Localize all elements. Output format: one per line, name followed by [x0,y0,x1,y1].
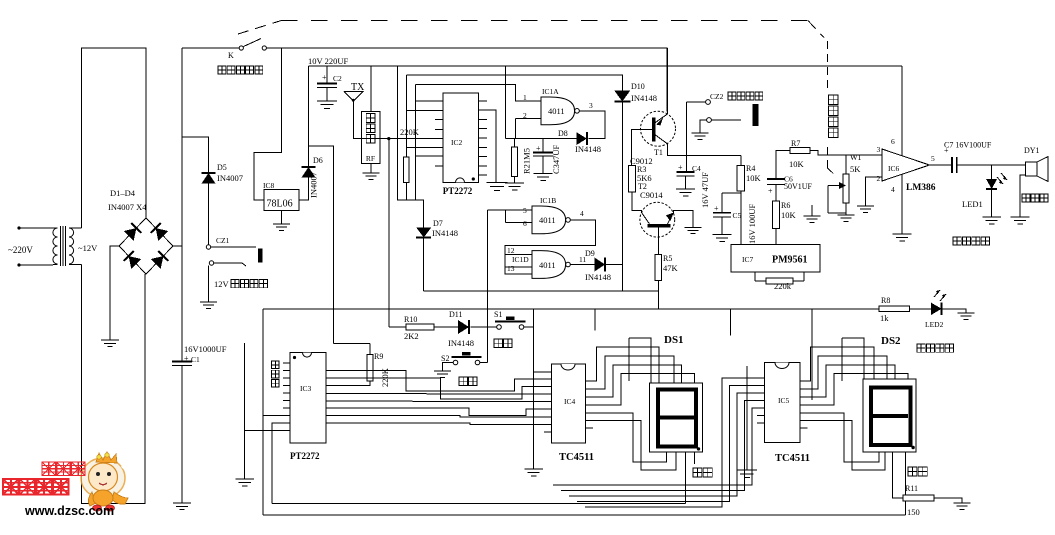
svg-text:~12V: ~12V [78,243,98,253]
resistor R2 1M5 [512,139,532,183]
wire IC1B pin5 from S2 line [488,209,533,211]
capacitor C7 16V100UF [944,141,992,174]
svg-text:D10: D10 [631,82,645,91]
ground (R11) [954,503,971,509]
svg-text:1k: 1k [880,313,889,323]
wire IC5 to DS2 segment lines (bottom) [808,413,886,470]
capacitor C4 16V47UF [677,163,711,208]
wire D6 cathode up to 6V rail [308,66,310,167]
wire IC5 power drop [729,309,731,336]
wire S2 left to ground [443,363,454,372]
resistor R9 220K [334,344,390,388]
diode D5 IN4007 [202,163,243,184]
wire S2 right to pin5 line [480,362,488,364]
label power indicator [917,344,953,352]
regulator IC8 78L06 [263,181,299,211]
svg-text:LED2: LED2 [925,320,944,329]
svg-text:C9014: C9014 [640,190,663,200]
switch K (bell switch) [182,39,266,61]
svg-text:IC1B: IC1B [540,196,556,205]
diode D8 IN4148 [558,129,601,154]
svg-text:5: 5 [931,154,935,163]
wire IC2 right pin to ground [478,110,496,182]
wire IC3 pin to bottom bus2 [272,423,283,504]
svg-text:D8: D8 [558,129,568,138]
label IC3 address pins (vertical) [272,361,280,387]
svg-text:CZ2: CZ2 [710,92,724,101]
svg-text:IC1D: IC1D [512,255,529,264]
wire receiver ground [370,164,372,173]
wire LM386 output [929,164,951,166]
wire bridge left vertex to ground [110,246,119,340]
connector CZ2 alarm output [687,92,763,133]
wire IC2 pin around top to IC1A pin1 (bus B) [415,85,541,201]
bridge rectifier D1-D4 IN4007 X4 [108,188,173,274]
svg-text:R10: R10 [404,315,417,324]
svg-text:4: 4 [580,209,584,218]
ground (W1) [838,215,855,221]
transistor T2 C9014 [638,182,675,237]
label 12V DC input [214,279,267,289]
capacitor C6 50V1UF [767,175,813,196]
resistor R3 5K6 [629,165,652,192]
wire 6V rail [309,65,902,67]
IC U3 PT2272 encoder (lower) [290,353,326,461]
wire DS2 cathode to R11 [893,452,904,498]
wire R6 bottom to PM9561 [775,229,777,245]
wire T1 emitter up to switched rail [666,48,668,114]
diode D10 IN4148 [614,82,657,103]
label alarm (S1) [494,339,512,347]
IC3 pin stubs [283,363,334,431]
svg-text:12V: 12V [214,279,230,289]
watermark find-chip text [42,462,85,476]
watermark brand text [3,479,69,495]
transistor T1 C9012 [630,111,676,166]
svg-text:C7 16V100UF: C7 16V100UF [944,141,992,150]
switch S1 (alarm button) [494,310,526,329]
diode D11 IN4148 [434,310,474,348]
ground (CZ1) [200,302,217,308]
wire R7 left to C6 [776,151,790,180]
wire S2 vertical [487,210,489,363]
svg-text:+: + [184,354,189,363]
gate IC1B 4011 [523,196,584,234]
ground (IC3 left) [235,479,254,486]
svg-text:S1: S1 [494,310,502,319]
svg-text:IN4148: IN4148 [575,144,601,154]
wire IC1A pin2 to gate node [515,119,517,139]
wire bottom bus1 [263,514,906,516]
wire bus to IC5 data lines [553,378,757,507]
wire 6V rail drop to gate input node [504,66,506,139]
wire IC1D input stubs [505,255,532,268]
svg-text:2: 2 [877,174,881,183]
svg-text:C347UF: C347UF [551,144,561,174]
svg-text:IN4007: IN4007 [309,172,319,198]
wire IC1A output pin3 [579,111,605,139]
wire secondary-bottom to bridge bottom via bottom loop [82,265,146,504]
wire secondary-top to bridge top via top-left loop [82,48,147,228]
wire DC+ vertical rail (bridge output up to switch rail and down to C1) [181,48,183,503]
wire T2 base down to R5 [657,227,659,254]
svg-text:D9: D9 [585,249,595,258]
wire bottom bus2 [272,503,685,505]
svg-text:10V 220UF: 10V 220UF [308,56,348,66]
svg-text:47K: 47K [663,263,679,273]
svg-text:6: 6 [891,137,895,146]
label units digit [693,468,712,477]
wire 78L06 output to D6 [299,178,309,201]
svg-text:IC7: IC7 [742,255,754,264]
antenna TX [344,82,365,139]
svg-text:16V1000UF: 16V1000UF [184,344,227,354]
svg-text:16V 100UF: 16V 100UF [747,204,757,244]
wire gate input node [505,138,576,140]
diode D6 IN4007 [302,156,323,198]
ground (display section) [737,366,757,478]
LED LED2 (power indicator) [910,290,946,329]
svg-text:R8: R8 [881,296,890,305]
ground (CZ2) [692,133,709,139]
gate IC1D 4011 [507,246,586,278]
svg-text:13: 13 [507,264,515,273]
svg-text:D6: D6 [313,156,323,165]
wire rail drop at x397 to D7 [398,66,424,228]
wire IC3 pin to left ground [245,343,283,479]
svg-text:10K: 10K [789,159,805,169]
resistor R6 10K [773,185,797,229]
svg-text:PT2272: PT2272 [443,186,473,196]
wire IC2 lower-left pin to bus B vertical [415,155,443,157]
wire T2 collector to R3 bottom [632,192,642,213]
ground (S2) [434,371,451,377]
ground (IC2) [486,182,507,190]
svg-text:R6: R6 [781,201,790,210]
wire C7 to speaker [957,164,1026,166]
svg-text:10K: 10K [746,173,762,183]
gate IC1A 4011 [516,87,594,125]
svg-text:D11: D11 [449,310,462,319]
ground (C5) [713,235,732,242]
svg-text:4011: 4011 [548,106,565,116]
ground (LM386 pin2) [857,206,874,212]
wire IC1B output pin4 to IC1D inputs [505,220,595,274]
svg-text:IN4007 X4: IN4007 X4 [108,202,147,212]
svg-text:16V 47UF: 16V 47UF [700,172,710,208]
wire receiver data output to IC2 [380,138,443,140]
ground (C2) [317,101,337,108]
label alarm indicator [953,237,989,245]
svg-text:220K: 220K [400,127,420,137]
svg-text:220k: 220k [774,281,792,291]
svg-text:1: 1 [523,93,527,102]
wire DC+ branch to D5 [182,137,209,173]
svg-text:IC6: IC6 [888,164,900,173]
svg-text:+: + [322,73,327,82]
wire latch vertical x533 [534,309,552,469]
svg-text:IC4: IC4 [564,397,576,406]
svg-text:D5: D5 [217,163,227,172]
label volume adjust (vertical) [829,95,838,137]
ground (C3) [534,174,553,181]
dashed boundary (volume adjust shaft link) [238,21,837,177]
wire LED2 to ground [942,309,967,313]
IC4 right pin stubs [585,381,593,428]
wire reset bus [424,291,659,309]
svg-text:DS2: DS2 [881,335,901,347]
IC4 leftover pin stub [544,431,552,433]
svg-text:R4: R4 [746,164,755,173]
svg-text:+: + [768,187,773,196]
IC U2 PT2272 decoder [443,93,479,196]
capacitor C1 16V1000UF [172,344,227,366]
svg-text:PT2272: PT2272 [290,451,320,461]
svg-text:3: 3 [877,145,881,154]
wire trigger bus drop [594,309,596,331]
diode D7 IN4148 [416,219,458,238]
label reset (S2) [459,377,477,385]
wire 6V branch down to lower section [309,146,334,344]
svg-text:IC2: IC2 [451,138,463,147]
svg-text:78L06: 78L06 [267,199,293,210]
svg-text:150: 150 [907,507,920,517]
wire R7 right to LM386 pin3 [810,151,875,156]
svg-text:12: 12 [507,246,515,255]
svg-text:C1: C1 [191,355,200,364]
svg-text:T1: T1 [654,148,663,157]
svg-text:W1: W1 [850,153,862,162]
diode D9 IN4148 [570,249,611,282]
svg-text:LM386: LM386 [906,183,936,193]
ground (LM386 pin4) [893,234,912,241]
wire IC5 to DS2 segment lines (top) [808,338,909,405]
ground (LED1) [982,217,1001,224]
LED LED1 (alarm indicator) [962,165,1007,217]
resistor R5 47K [655,254,678,280]
ground (aux near PM9561) [804,205,821,222]
wire IC1B pin6 [505,210,532,223]
resistor R7 10K [789,139,810,169]
node AC mains ~220V input terminals [8,226,49,266]
svg-text:3: 3 [589,101,593,110]
wire IC3 pin to rail drop vertical [263,415,283,417]
svg-text:IN4007: IN4007 [217,173,243,183]
op-amp IC6 LM386 [875,66,936,234]
svg-text:IN4148: IN4148 [432,228,458,238]
svg-text:4011: 4011 [539,215,556,225]
switch S2 (reset button) [441,352,482,365]
wire 220K top to IC2 pin [406,147,443,149]
resistor 220K (IC2 oscillator) [404,148,410,201]
svg-text:R21M5: R21M5 [522,148,532,174]
wire D8 cathode to IC1A pin3 [588,112,605,139]
resistor R11 150 [903,484,934,517]
svg-text:DS1: DS1 [664,334,684,346]
IC U5 TC4511 (tens driver) [765,363,810,465]
svg-text:+: + [678,163,683,172]
svg-text:R9: R9 [374,352,383,361]
svg-text:2: 2 [523,111,527,120]
wire D10 cathode down (alarm trigger line) [621,102,623,265]
wire D7 cathode to reset bus [423,238,425,291]
wire big left vertical [262,309,264,515]
svg-text:C4: C4 [692,164,701,173]
svg-text:IN4148: IN4148 [585,272,611,282]
wire D11 to S1 [471,326,497,328]
label 220K [400,127,420,137]
svg-text:TC4511: TC4511 [775,453,810,464]
svg-text:RF: RF [366,154,375,163]
ground (R2) [505,183,524,190]
svg-text:C2: C2 [333,74,342,83]
potentiometer W1 5K (volume) [828,153,862,215]
svg-text:PM9561: PM9561 [772,255,808,266]
wire IC4 to DS1 segment lines (top) [593,338,695,405]
svg-text:~220V: ~220V [8,245,33,255]
watermark url [24,504,114,518]
RF receiver module (RF receive head) [362,112,380,164]
svg-text:6: 6 [523,219,527,228]
IC5 pin stubs [757,378,808,428]
svg-text:K: K [228,51,234,60]
svg-text:D7: D7 [433,219,443,228]
svg-text:+: + [714,204,719,213]
svg-text:4: 4 [891,185,895,194]
wire bus IC3 to IC4 data lines [334,371,551,425]
svg-text:+: + [536,144,541,153]
ground (LED2) [958,313,975,319]
wire switched DC+ rail to T1 emitter [267,48,668,112]
svg-text:IC1A: IC1A [542,87,559,96]
resistor R4 10K [737,156,761,191]
svg-text:50V1UF: 50V1UF [784,182,813,191]
svg-text:C5: C5 [733,211,742,220]
svg-text:2K2: 2K2 [404,331,419,341]
display DS1 (units digit) [649,334,702,452]
svg-text:10K: 10K [781,210,797,220]
wire DS2 power drop [811,309,813,400]
svg-text:www.dzsc.com: www.dzsc.com [24,504,114,518]
svg-text:LED1: LED1 [962,199,983,209]
wire R5 bottom to trigger bus [657,280,659,308]
resistor 220k (PM9561 osc) [755,272,804,291]
ground (C4) [676,189,695,196]
ground (T2 emitter) [685,227,702,233]
ground (speaker) [1011,217,1030,224]
wire LM386 pin2 to ground [865,177,882,206]
wire DS1 common cathode to bus [684,452,686,503]
capacitor C5 [713,193,757,244]
label bell switch [218,66,263,74]
wire switched rail down to 78L06 input [254,48,281,200]
wire bridge right vertex to DC+ line [173,245,182,247]
IC2 pin stubs [435,101,487,175]
ground (receiver) [362,173,379,179]
node data junction [387,137,390,140]
wire R4 bottom to PM9561 [740,191,742,245]
speaker DY1 [1022,146,1048,202]
svg-text:IN4148: IN4148 [631,93,657,103]
svg-text:5K: 5K [850,164,861,174]
svg-text:R11: R11 [905,484,918,493]
resistor R10 2K2 [389,315,434,341]
capacitor C2 10V220UF [308,56,348,101]
svg-text:IC5: IC5 [778,396,790,405]
wire IC2 VT pin around top to D10 (bus A) [406,75,622,148]
wire DS1 dp stub [694,452,696,464]
display DS2 (tens digit) [863,335,916,452]
wire R11 to ground [934,498,962,503]
svg-text:IC3: IC3 [300,384,312,393]
svg-text:IC8: IC8 [263,181,275,190]
wire CZ2 tip down to C4/collector node [686,102,688,172]
svg-text:IN4148: IN4148 [448,338,474,348]
wire 6V rail to receiver [370,66,372,112]
svg-text:CZ1: CZ1 [216,236,230,245]
ground (C1) [173,503,191,510]
wire lower power bus [263,308,879,310]
wire CZ1 lower terminal to ground [208,266,210,303]
transformer B1 (220V to 12V) [49,226,98,266]
connector CZ1 (12V DC input) [206,236,262,266]
wire trigger line down to bus [621,264,623,291]
wire D9 cathode to trigger line [605,264,622,266]
wire D5 anode to CZ1 [208,184,210,245]
ground (IC4 area) [524,469,543,476]
label tens digit [908,467,927,476]
svg-text:R7: R7 [791,139,800,148]
watermark mascot [81,452,136,511]
capacitor C3 47UF [533,139,561,174]
wire T2 emitter to ground [674,211,694,228]
ground (78L06) [273,224,290,230]
wire 78L06 ground pin [281,211,283,225]
IC U4 TC4511 (units driver) [551,364,594,463]
wire data junction down to R10 [388,139,390,327]
wire DS2 common to bottom bus [905,452,907,515]
svg-text:4011: 4011 [539,260,556,270]
wire IC4 to DS1 segment lines (bottom) [593,413,676,470]
resistor R8 1k [879,296,910,323]
svg-text:TC4511: TC4511 [559,452,594,463]
svg-text:D1–D4: D1–D4 [110,188,136,198]
wire T1 collector down and right [668,144,741,156]
svg-text:S2: S2 [441,354,449,363]
svg-text:R5: R5 [663,254,672,263]
svg-text:DY1: DY1 [1024,146,1040,155]
IC U7 PM9561 alarm sound generator [731,245,820,273]
wire speaker to ground [1020,175,1026,217]
wire T1 base to R3 [631,129,651,165]
wire S1 to latch line [524,326,534,328]
ground (bridge negative) [101,340,119,347]
